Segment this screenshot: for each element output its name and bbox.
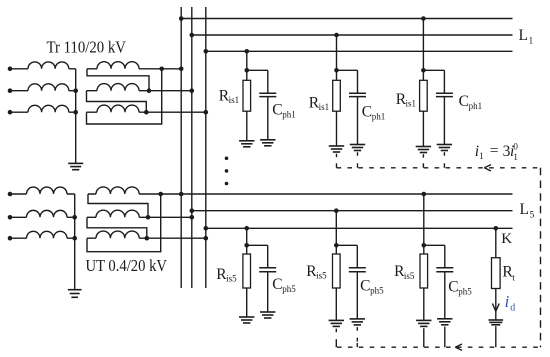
svg-text:is1: is1 (319, 102, 330, 112)
wire feeder L5 phase 2 (192, 210, 513, 212)
dash under R ground top 3 (422, 154, 424, 158)
wire R upper lead 1 3 (422, 70, 424, 80)
junction tap 1 2 (334, 33, 339, 38)
junction Tr secondary b wrap (147, 88, 152, 93)
resistor Ris1 column 2 (333, 80, 341, 111)
wire C lower lead 1 3 (443, 97, 445, 145)
junction branch 5 1 (244, 243, 249, 248)
junction Tr primary neutral row C (73, 110, 78, 115)
svg-text:1: 1 (513, 152, 518, 162)
ground C 5 2 (350, 318, 365, 320)
wire tap R1 5 (246, 228, 248, 245)
junction UT secondary b wrap (146, 215, 151, 220)
wire tap R3 1 (422, 19, 424, 71)
ground R 5 1 (239, 316, 254, 318)
ground C 5 3 (437, 318, 452, 320)
junction UT secondary c wrap (145, 236, 150, 241)
transformer UT secondary winding c (87, 231, 206, 238)
wire C lower lead 5 2 (356, 272, 358, 319)
wire R lower lead 5 1 (246, 288, 248, 317)
junction branch 1 2 (334, 68, 339, 73)
wire busbar phase 1 (180, 7, 182, 288)
wire C lower lead 1 1 (267, 97, 269, 140)
wire R upper lead 5 2 (335, 245, 337, 254)
capacitor Cph1 column 2 (349, 92, 366, 94)
svg-text:L: L (519, 27, 528, 44)
svg-text:C: C (448, 279, 458, 296)
junction bus2/UT row b (190, 215, 195, 220)
junction bus3/UT row c (204, 236, 209, 241)
svg-text:ph1: ph1 (282, 109, 296, 119)
resistor Rt (492, 258, 501, 289)
capacitor Cph1 column 3 (436, 92, 453, 94)
tick bottom dashed line start (335, 343, 337, 347)
transformer UT secondary winding b (87, 210, 192, 217)
wire tap R1 1 (246, 51, 248, 70)
svg-text:L: L (520, 201, 529, 218)
capacitor Cph5 column 1 (259, 267, 276, 269)
svg-text:C: C (459, 93, 469, 110)
transformer UT primary winding phase B (10, 210, 75, 217)
svg-text:is5: is5 (316, 271, 327, 281)
ground R 1 1 (239, 140, 254, 142)
wire feeder L5 phase 3 (206, 227, 513, 229)
ellipsis more feeders (225, 157, 229, 161)
wire dashed loop bottom (337, 346, 541, 348)
transformer Tr secondary winding a (87, 62, 181, 69)
wire Rt lower lead (495, 289, 497, 321)
dashes under C ground bottom 2 (356, 327, 358, 331)
junction UT primary neutral row C (72, 236, 77, 241)
wire UT primary neutral (74, 194, 76, 290)
svg-text:5: 5 (530, 211, 535, 221)
junction bus2/L5 (190, 208, 195, 213)
wire Rt upper lead (495, 228, 497, 257)
transformer UT primary winding phase C (10, 231, 75, 238)
wire R lower lead 5 3 (423, 288, 425, 320)
wire R lower lead 1 2 (336, 111, 338, 146)
svg-text:1: 1 (529, 37, 534, 47)
svg-text:ph5: ph5 (458, 287, 472, 297)
arrow top loop current (484, 165, 491, 171)
wire C lower lead 5 3 (444, 272, 446, 319)
wire R upper lead 5 1 (246, 245, 248, 254)
junction branch 1 3 (421, 68, 426, 73)
svg-text:ph1: ph1 (372, 111, 386, 121)
ground C 1 3 (437, 144, 452, 146)
wire R ground to loop bottom 3 (423, 328, 425, 347)
junction bus3/L1 (204, 49, 209, 54)
tick bottom dashed line pair2 C (356, 343, 358, 347)
junction bus2/Tr row b (190, 88, 195, 93)
svg-text:is1: is1 (406, 99, 417, 109)
dash under R ground top 2 (336, 154, 338, 158)
junction tap 5 1 (244, 226, 249, 231)
wire Tr primary neutral (75, 69, 77, 164)
junction branch 5 2 (334, 243, 339, 248)
wire R upper lead 5 3 (423, 245, 425, 254)
wire UT secondary wrap a-b (88, 194, 148, 217)
junction branch 1 1 (245, 68, 250, 73)
junction Tr secondary a wrap (159, 67, 164, 72)
capacitor Cph1 column 1 (259, 92, 276, 94)
resistor Ris5 column 2 (333, 254, 341, 288)
transformer UT primary winding phase A (10, 187, 75, 194)
ground C 1 1 (260, 139, 275, 141)
dashes under R ground bottom 2 (335, 329, 337, 333)
svg-text:t: t (512, 273, 515, 283)
junction Tr secondary c wrap (144, 110, 149, 115)
ground UT primary neutral (68, 289, 82, 291)
resistor Ris5 column 3 (420, 254, 428, 288)
wire C lower lead 1 2 (357, 97, 359, 145)
wire C ground to loop bottom 3 (444, 327, 446, 348)
svg-text:is1: is1 (229, 95, 240, 105)
junction branch 5 3 (422, 243, 427, 248)
resistor Ris1 column 3 (420, 80, 428, 111)
tick top dashed line R3 (422, 163, 424, 168)
wire R upper lead 1 1 (246, 70, 248, 80)
junction Tr primary neutral row B (73, 88, 78, 93)
capacitor Cph5 column 3 (436, 267, 453, 269)
svg-text:is5: is5 (404, 271, 415, 281)
dash under C ground top 2 (357, 152, 359, 156)
wire UT secondary wrap b-c (87, 217, 147, 238)
ground C 5 1 (260, 311, 275, 313)
ground R 5 2 (329, 319, 344, 321)
ground Rt (489, 319, 504, 321)
ground Tr primary neutral (68, 162, 83, 164)
wire branch to C 5 3 (424, 244, 445, 246)
junction bus1/Tr row a (179, 67, 184, 72)
transformer UT secondary winding a / feeder line L5 phase 1 (88, 187, 513, 194)
arrow bottom loop current (455, 344, 462, 350)
svg-text:Tr 110/20 kV: Tr 110/20 kV (47, 38, 127, 57)
wire busbar phase 2 (191, 7, 193, 288)
wire R upper lead 1 2 (336, 70, 338, 80)
ground R 5 3 (416, 319, 431, 321)
wire tap R3 5 (423, 194, 425, 245)
wire feeder L1 phase 2 (192, 34, 513, 36)
wire tap R2 5 (335, 211, 337, 246)
wire UT secondary wrap c-a (87, 194, 161, 252)
transformer Tr primary winding phase A (10, 62, 76, 69)
wire Rt ground to loop (495, 326, 497, 347)
wire feeder L1 phase 3 (206, 50, 513, 52)
junction UT primary neutral row B (72, 215, 77, 220)
resistor Ris5 column 1 (243, 254, 251, 288)
svg-text:UT 0.4/20 kV: UT 0.4/20 kV (86, 256, 168, 275)
transformer Tr secondary winding c (87, 105, 206, 112)
wire R lower lead 1 1 (246, 111, 248, 141)
svg-text:d: d (510, 303, 515, 314)
arrow id current (492, 304, 499, 312)
junction tap 1 1 (245, 49, 250, 54)
capacitor Cph5 column 2 (349, 267, 366, 269)
svg-text:C: C (362, 103, 372, 120)
tick top dashed line start (336, 163, 338, 168)
wire branch to C 1 3 (423, 69, 444, 71)
junction tap 1 3 (421, 16, 426, 21)
wire Tr secondary wrap a-b (87, 69, 149, 91)
svg-text:C: C (272, 276, 282, 293)
wire C lower lead 5 1 (267, 272, 269, 312)
wire R lower lead 5 2 (335, 288, 337, 320)
wire tap R2 1 (336, 35, 338, 70)
wire Tr secondary wrap b-c (87, 91, 147, 113)
svg-text:ph1: ph1 (469, 101, 483, 111)
wire branch to C 1 2 (337, 69, 358, 71)
junction bus3/L5 (204, 226, 209, 231)
svg-text:1: 1 (479, 151, 484, 161)
junction tap 5 2 (334, 208, 339, 213)
dash under C ground top 3 (443, 152, 445, 156)
junction bus2/L1 (190, 33, 195, 38)
ground R 1 2 (329, 145, 344, 147)
wire busbar phase 3 (205, 7, 207, 288)
wire Tr secondary wrap c-a (87, 69, 162, 124)
transformer Tr primary winding phase B (10, 84, 76, 91)
svg-text:C: C (272, 101, 282, 118)
transformer Tr secondary winding b (87, 84, 192, 91)
wire R lower lead 1 3 (422, 111, 424, 146)
transformer Tr primary winding phase C (10, 105, 76, 112)
svg-text:C: C (360, 277, 370, 294)
svg-text:i: i (505, 292, 510, 311)
junction bus3/Tr row c (204, 110, 209, 115)
wire branch to C 5 1 (247, 244, 268, 246)
tick top dashed line C3 (443, 163, 445, 168)
ground R 1 3 (416, 146, 431, 148)
junction K on L5 phase 3 (494, 226, 499, 231)
svg-text:=: = (490, 142, 499, 159)
junction UT secondary a wrap (158, 192, 163, 197)
resistor Ris1 column 1 (243, 80, 251, 111)
wire dashed loop top (337, 167, 541, 169)
wire dashed loop right (540, 168, 542, 347)
svg-text:ph5: ph5 (282, 284, 296, 294)
svg-text:0: 0 (513, 142, 518, 152)
wire branch to C 1 1 (247, 69, 268, 71)
tick top dashed line C2 (357, 163, 359, 168)
junction tap 5 3 (422, 192, 427, 197)
junction bus1/L5 (179, 192, 184, 197)
svg-text:K: K (501, 231, 512, 247)
svg-text:is5: is5 (226, 274, 237, 284)
svg-text:ph5: ph5 (370, 285, 384, 295)
wire feeder L1 phase 1 (181, 18, 512, 20)
ground C 1 2 (350, 144, 365, 146)
wire branch to C 5 2 (336, 244, 357, 246)
junction bus1/L1 (179, 16, 184, 21)
